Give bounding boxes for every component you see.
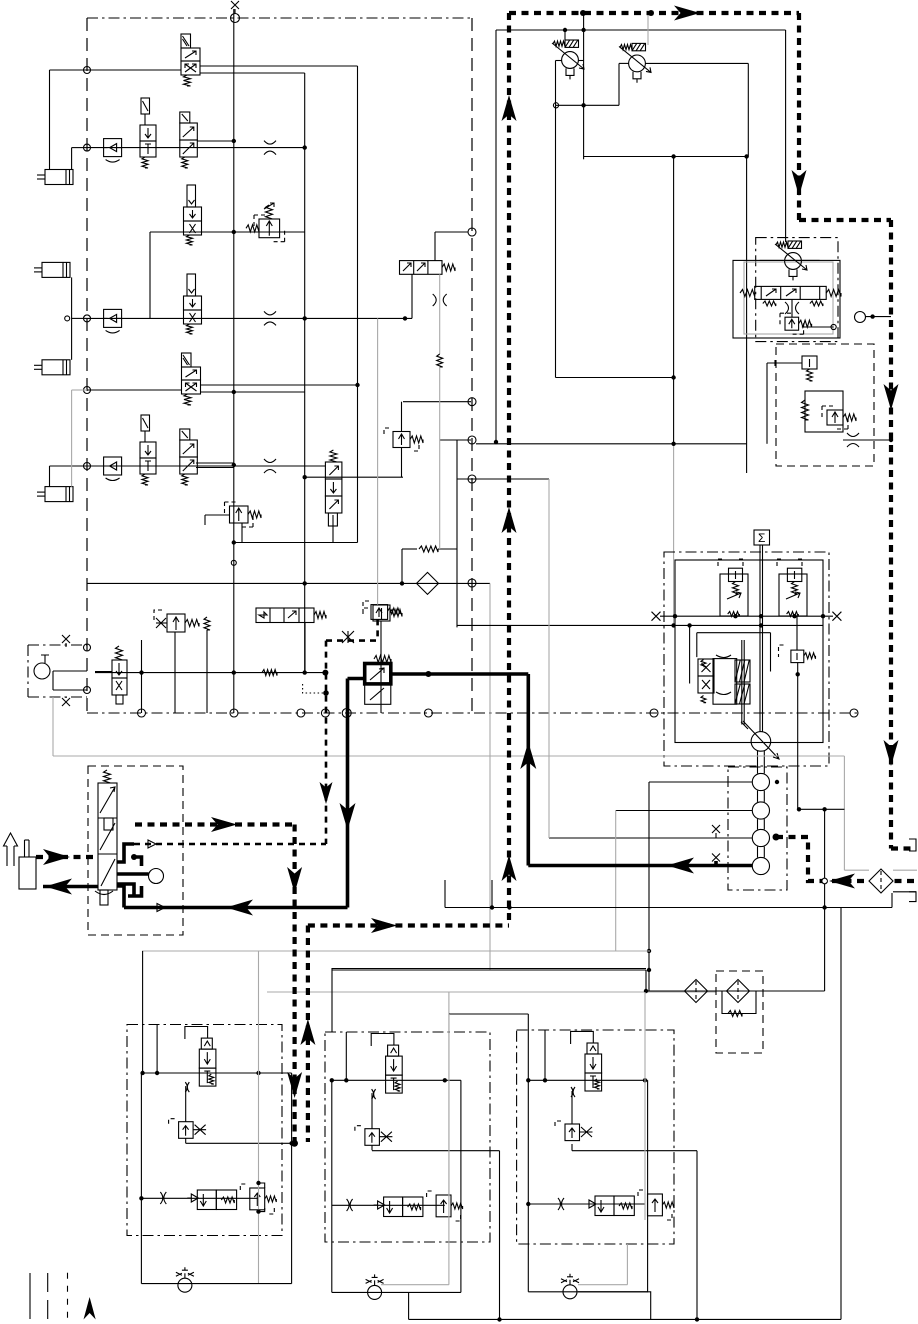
wire y627 [457,624,823,626]
module3 wire x647 [647,1080,649,1292]
wire comp1 left [556,60,562,62]
node row6 central [232,463,236,467]
arrow top right [674,6,700,21]
wire x332 module2 feed [331,968,333,1032]
pilot dotted stub [303,684,326,693]
port circle border bottom b8 [850,709,858,717]
directional valve row6 B [180,429,190,440]
regulator dashed box [776,344,874,466]
VA outer box [733,260,840,338]
module2 wire unload row [332,1204,445,1206]
enclosure bottom border [87,712,857,714]
node x326 top [323,690,329,696]
module2 drain [408,1292,410,1319]
arrow steering supply [43,849,70,865]
pilot valve row6 [141,415,150,431]
bold dash suction [776,837,914,881]
node x496-442 [494,440,498,444]
arrow x307 up [300,1019,315,1045]
module2 wire y1150 [372,1150,500,1152]
relief valve R9 [393,432,410,448]
VA inner box gray [744,262,833,334]
wire A4 feed row5 [71,390,73,487]
arrow x347 down [340,803,356,830]
module3 wire gray x645 [644,992,646,1220]
arrow p3 [792,170,807,196]
arrow p2 c [502,855,517,881]
wire rail672 [95,672,325,674]
wire x583 from dash [583,13,585,61]
x mark P0 bot [62,698,70,706]
wire box2 vert [766,363,768,444]
bold dash left vertical [507,13,511,925]
wire row5 [87,389,182,391]
sigma symbol [754,530,770,545]
sigma box dash-dot [664,552,829,766]
steering lower [100,890,108,905]
wire x150 down [149,232,151,318]
filter F3 [727,980,750,1003]
wire vertical x357 [357,66,359,543]
port circle border bottom b1 [138,709,146,717]
steering outlet [117,886,124,908]
module1 relief MR1 [179,1122,194,1139]
port circle border bottom b3 [297,709,305,717]
relief valve R8 [827,410,843,425]
wire x53 gray [52,697,54,756]
wire x841 long [840,908,842,1320]
module3 wire relief down [571,1144,573,1151]
wire A2-A3 link [71,277,73,359]
filter dashed box [716,971,763,1053]
bold valve BV [365,664,391,684]
arrow y907 [226,900,253,916]
module1 pump PM1 [178,1278,192,1292]
valve V3 [187,185,196,207]
port circle border L1 [84,67,91,74]
svg-text:Σ: Σ [758,531,765,545]
node row2-x304 [303,145,307,149]
pump shafts [757,751,759,773]
port circle border bottom b5 [342,709,351,718]
module1 valve MV1 [201,1038,212,1049]
VA spring marks [763,301,776,306]
bold main y865 [528,864,752,868]
valve H1 [400,261,443,275]
wire y479 stub [457,478,549,480]
restrictor row6 [264,459,276,473]
wire rail583 [87,582,490,584]
wire H1 down a [411,274,413,318]
cylinder A2 [42,262,70,277]
wire x554 long [555,105,557,377]
wire row2 [87,147,305,149]
bold dash right down [797,13,801,220]
port circle border bottom b6 [424,709,432,717]
relief valve R3 [167,614,185,632]
wire row5 out lower [200,391,305,393]
bold dash right vertical [889,220,893,849]
module3 feed [449,1013,528,1015]
bold link valve [348,677,365,681]
module3 wire top [528,1079,647,1081]
wire y616 [660,615,833,617]
legend arrow [84,1297,96,1320]
node row4 a [303,316,307,320]
module3 wire valve-relief [571,1091,573,1124]
wire gray x490 [489,583,491,970]
module1 wire bottom [141,1283,291,1285]
sigma inner box [675,560,823,743]
pump circle P2 [752,773,769,790]
bold dash steering out [135,822,295,826]
module2 feed vert [345,1032,347,1080]
wire gray right corner [843,756,845,870]
wire x697 [696,1151,698,1320]
wire y991 filters [646,990,825,992]
directional valve V1 [181,34,191,48]
wire h3 drops [141,640,143,713]
module2 relief MR2 [365,1129,380,1146]
wire x615 [615,811,617,952]
wire y378 [556,377,674,379]
restrictor VA [791,299,793,317]
port circle border r0 [468,398,476,406]
check valve row2 [104,139,122,157]
restrictor row4 [264,311,276,325]
port circle border L2 [84,144,91,151]
steering valve body [98,783,117,890]
wire y1319 [409,1318,841,1320]
module3 drain [578,1292,651,1320]
wire y443 [476,443,747,445]
wire x549 gray [548,479,550,838]
port circle border bottom b7 [650,709,658,717]
check valve row4 [104,309,122,327]
node row3 central [232,230,236,234]
tank bracket T2 [909,892,916,902]
sigma double line [759,545,761,732]
arrow y925 [371,918,397,933]
wire comp2 left [618,63,620,105]
cylinder A1 [45,170,73,185]
pump circle P3 [752,802,769,819]
wire pump4 suction [549,837,752,839]
directional valve V5 [182,353,192,367]
wire rail30 [496,29,786,31]
arrow x326 [320,782,333,804]
restrictor R8 [847,433,859,447]
pressure compensator PC2 [629,55,646,72]
wire A4 feed row6 [49,466,51,487]
bold main y674 [391,672,529,676]
cylinder A3 [42,360,70,375]
wire row6 [87,465,325,467]
pilot selector valve PV [116,646,123,660]
port circle P0 a [84,644,91,651]
wire y970 [332,969,646,971]
wire zigzag branch [401,549,403,583]
swashplate pump P1 [751,732,771,752]
wire row1 out upper [200,65,358,67]
wire pump2 suction [649,781,752,783]
pump circle P4 [752,829,769,846]
arrow suction [829,874,855,889]
pump box dash-dot [28,645,87,697]
wire x496 [495,30,497,442]
bold main y907 [124,906,348,910]
module1 dash-dot box [127,1025,282,1236]
filter bypass [722,991,756,1014]
wire x445 [444,880,446,908]
relief valve R5 [371,605,388,620]
check valve row6 [104,457,122,475]
filter F1 [417,572,439,594]
module1 wire top [141,1072,291,1074]
bold dash top [509,11,799,15]
module1 wire left [140,1073,142,1284]
module2 wire gray x444 [448,992,450,1285]
wire x746 [746,157,748,474]
wire comp2 top gray [647,13,649,45]
wire y907 [445,907,892,909]
wire comp2 right [645,62,748,64]
module3 wire unload row [528,1203,645,1205]
x mark pilot [342,631,354,643]
wire v6 down [332,515,334,543]
relief valve R2 [230,506,249,523]
wire row3 [150,231,305,233]
pressure compensator PC3 [785,253,802,270]
wire central vertical [233,9,235,713]
relief valve RC [779,645,784,657]
module1 wire unload row [141,1197,258,1199]
pump circle P5 [752,857,769,874]
cylinder steering [19,857,36,889]
wire x457 [456,440,458,627]
VA valve body [755,286,827,299]
spring drain [204,617,210,630]
port circle top border [231,14,240,23]
module3 check loop [571,1031,594,1044]
arrow x294 b [287,1072,302,1098]
node x294 end [291,1140,298,1147]
arrow p5 [884,740,899,766]
wire y809 [799,808,844,810]
pilot dashed R5 link [326,639,378,642]
wire r4 drop [380,621,382,713]
module2 unloader UV2 [374,1201,385,1209]
wire comp1 right [578,60,583,62]
restrictor row2 [264,141,276,155]
steering dashed box [88,766,183,935]
module1 unloader UV1 [187,1194,198,1202]
valve V6 [330,450,337,462]
wire y156 [584,156,747,158]
pump chain dash-dot box [728,767,787,890]
wire x797 down [797,663,799,810]
arrow p2 a [502,95,517,121]
wire vertical x304 [304,73,306,673]
VA springs [740,290,755,297]
relief valve R4 [373,605,390,621]
arrow x294 a [287,867,302,893]
module3 feed vert [544,1030,546,1080]
module2 wire top [332,1079,461,1081]
module3 wire y1150 [572,1150,697,1152]
bold dash to tank [891,846,914,850]
steering thick loop [117,844,134,862]
port circle border right r2 [468,436,476,444]
wire RC [796,616,798,650]
wire H1 top [434,232,436,261]
wire gray y756 [53,755,844,757]
x mark y865 [712,854,720,862]
directional valve row2 B [180,112,190,123]
wire row6 v6 link [305,476,403,478]
hollow arrow [4,833,18,866]
node row4 b [403,316,407,320]
module1 feed verts [142,951,144,1073]
wire y105 [556,104,620,106]
wire row6 double a [196,462,234,464]
wire row1 [50,69,182,71]
module3 dash-dot box [517,1030,674,1244]
bold line steering return [43,885,98,889]
wire x824 [824,810,826,992]
wire y401 [403,401,471,403]
module3 relief MR3 [565,1124,580,1141]
wire comp1 top [564,30,566,40]
bold main x528 [526,674,530,866]
spring regulator [802,400,809,420]
VA top ports [760,259,820,261]
wire A1 feed row2 [71,148,73,170]
wire P0 [53,670,87,672]
wire row5 out upper [200,384,358,386]
module1 check loop [185,1027,208,1040]
wire y440 stub [440,439,471,441]
module3 pump PM3 [563,1285,577,1299]
wire y632 [697,632,771,634]
wire x649 [648,782,650,991]
wire row4 [87,317,412,319]
bold dash y925 [308,923,509,927]
filter F4 [869,869,893,893]
wire x689 [689,625,691,683]
pilot valve row2 [141,98,150,114]
port circle border right r1 [468,228,476,236]
wire A1 feed row1 [49,70,51,170]
wire gray y951 [142,950,650,952]
bold dash x307 [306,926,310,1143]
module3 unloader UV3 [585,1200,596,1208]
module1 relief loop [259,1183,265,1188]
gauge G1 [855,312,866,323]
arrow y824 [211,817,237,832]
wire x646 [645,970,647,991]
module1 wire relief down [185,1138,187,1143]
port circle border L5 [84,463,91,470]
relief pilot A [718,559,743,567]
wire gray y992 [267,991,716,993]
servo cluster [713,659,737,705]
bold main x347 [346,679,350,908]
relief valve R7 [802,356,817,369]
legend bold dashed [67,1273,69,1320]
module2 dash-dot box [325,1032,490,1242]
wire r2 stub [241,523,243,543]
wire VA right [802,326,834,328]
damping orifice rail [262,670,277,676]
valve V4 [187,274,196,296]
wire x785 [785,30,787,242]
solenoid valve H4 [256,608,314,623]
crossing circle [822,878,828,884]
pressure compensator PC1 [562,52,579,69]
legend solid [29,1273,31,1319]
bold dash x294 [293,825,297,1144]
module1 wire gray x258 [258,951,260,1284]
arrow p4 [884,384,899,410]
wire row6 double b [196,467,234,469]
port circle border right r3 [468,475,476,483]
module2 wire bottom [332,1291,461,1293]
port circle border right r4 [468,579,476,587]
port circle border L3 [84,315,91,322]
enclosure right border [471,18,473,713]
module3 wire left [527,1014,529,1292]
enclosure top-left block top border [87,17,472,19]
port circle border bottom b4 [321,709,329,717]
module2 wire left [331,1080,333,1292]
gerotor [149,869,164,884]
module2 wire x460 [460,1080,462,1292]
tank bracket T1 [909,839,916,851]
regulator inner box [805,391,843,432]
port circle border L4 [84,387,91,394]
relief valve R6 [785,317,799,330]
relief pilot B [777,559,802,567]
module2 check loop [371,1034,394,1047]
arrow x528 up [520,742,536,769]
port circle border bottom b2 [230,709,238,717]
wire R5 top gray [377,318,379,604]
module3 valve MV3 [587,1043,598,1054]
VA dash-dot box [756,238,838,342]
module1 wire valve-relief [185,1086,187,1122]
arrow y865 [667,858,694,874]
enclosure left border [86,18,88,713]
wire row2 branch [197,140,234,142]
wire h4 down [304,623,306,673]
module2 valve MV2 [388,1045,399,1056]
module3 wire bottom [528,1291,647,1293]
pump P0 [34,663,50,679]
module2 pump PM2 [368,1285,382,1299]
x mark P0 top [62,635,70,643]
cylinder A4 [45,487,73,502]
wire r2 line [234,542,358,544]
filter F2 [685,980,708,1003]
damping orifice [419,546,438,552]
module2 wire valve-relief [371,1093,373,1129]
wire gauge to dash [866,316,892,318]
relief valve R1 [259,219,280,238]
wire row1 out lower [200,72,305,74]
wire x674 [673,157,675,444]
legend dashed [47,1273,49,1320]
